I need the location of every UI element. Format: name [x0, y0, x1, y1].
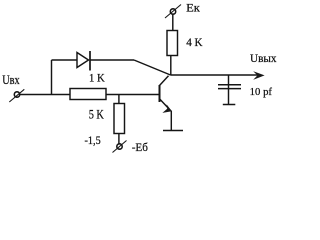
svg-text:4 K: 4 K [186, 35, 203, 49]
svg-text:5 K: 5 K [89, 107, 104, 121]
svg-text:Uвых: Uвых [250, 53, 277, 65]
svg-text:1 K: 1 K [89, 71, 105, 85]
svg-text:-Еб: -Еб [132, 140, 148, 154]
svg-text:Ек: Ек [186, 1, 200, 15]
svg-text:Uвх: Uвх [2, 72, 20, 87]
svg-text:10 pf: 10 pf [250, 87, 273, 98]
svg-text:-1,5: -1,5 [85, 135, 101, 147]
